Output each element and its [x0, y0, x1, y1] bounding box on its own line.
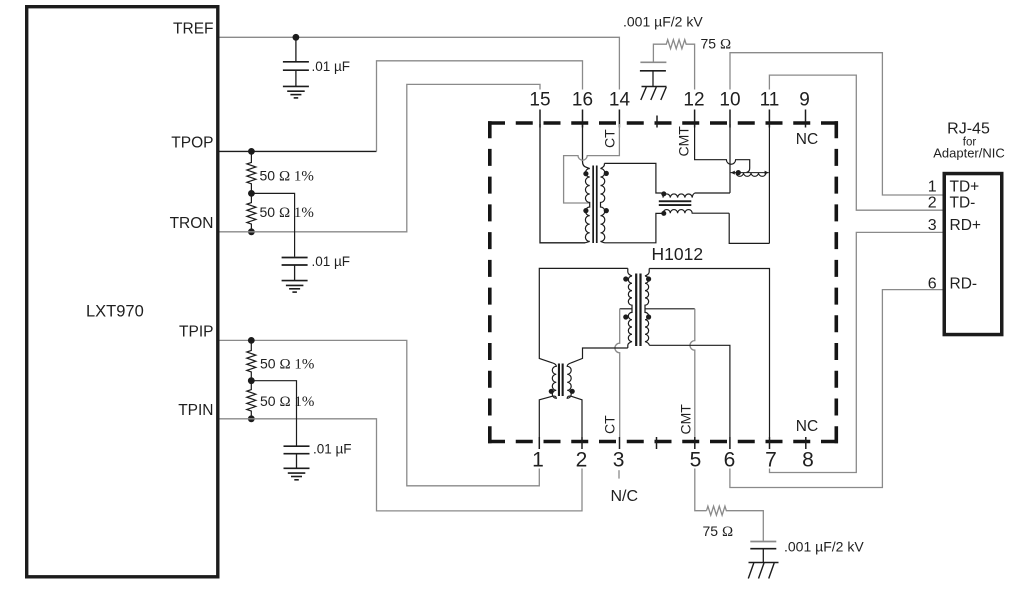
svg-text:75 Ω: 75 Ω: [701, 36, 732, 53]
svg-text:5: 5: [690, 449, 702, 472]
wire C3 branch: [251, 381, 296, 446]
wire CMT pin 5 riser with hop: [690, 309, 695, 437]
pin stems bottom row: [539, 437, 806, 449]
svg-text:75 Ω: 75 Ω: [703, 523, 734, 540]
choke L1 top winding: [662, 193, 731, 198]
wire pin 15 to T1 primary bottom: [540, 124, 585, 243]
L2 phase dot: [736, 170, 741, 175]
capacitor C2 .01uF: [282, 258, 308, 281]
wire T1 secondary top to choke L1: [604, 163, 661, 193]
svg-text:NC: NC: [796, 418, 818, 435]
resistor R6 75 Ohm with leads: [653, 40, 694, 90]
wire pin 10 to RJ45 TD+: [730, 53, 943, 195]
wire CMT pin 12 to L2 center tap with hop: [695, 124, 750, 172]
svg-text:50 Ω 1%: 50 Ω 1%: [260, 356, 314, 373]
choke L1 phase dots: [661, 191, 666, 216]
transformer T3 right winding: [567, 363, 571, 398]
T3 phase dots: [549, 389, 575, 394]
svg-text:11: 11: [760, 90, 780, 111]
svg-text:TD+: TD+: [950, 179, 980, 196]
svg-text:NC: NC: [796, 131, 818, 148]
T2 phase dots: [623, 276, 651, 319]
transformer T3 left winding: [552, 363, 556, 398]
wire pin 10 into module: [729, 124, 731, 193]
svg-text:H1012: H1012: [652, 244, 704, 264]
transformer T2 right winding: [645, 269, 649, 346]
transformer T1 right winding: [601, 163, 605, 242]
wire pin 16 to T1 primary top: [583, 124, 590, 169]
svg-text:TPIN: TPIN: [178, 402, 213, 419]
capacitor C4 .001uF: [640, 62, 667, 86]
wire T1 secondary bottom to choke L1: [605, 213, 662, 242]
wire TPOP to turn: [220, 150, 377, 152]
wire choke bottom right to pin 11: [729, 213, 769, 243]
wire TPOP riser to pin 16: [377, 61, 583, 152]
transformer T1 core: [592, 166, 597, 244]
svg-text:14: 14: [609, 90, 631, 111]
svg-text:RJ-45: RJ-45: [947, 121, 990, 138]
transformer T1 left winding: [585, 169, 590, 243]
svg-text:8: 8: [802, 449, 814, 472]
wire T3 left bottom to pin 1: [539, 396, 552, 437]
node TREF/C1 junction: [293, 34, 300, 41]
ground G1: [283, 86, 309, 98]
wire TRON to pin 15: [220, 84, 541, 231]
svg-text:9: 9: [799, 90, 810, 111]
svg-text:6: 6: [928, 275, 937, 292]
wire T2 left top to T3: [539, 268, 628, 363]
choke L1 bottom winding: [662, 210, 730, 214]
wire TREF to pin 14: [220, 37, 620, 89]
RJ-45 connector box: [944, 174, 1002, 335]
chassis ground G4: [641, 87, 667, 101]
svg-text:.001 µF/2 kV: .001 µF/2 kV: [623, 14, 703, 30]
svg-text:TPOP: TPOP: [171, 135, 213, 152]
wire pin 11 into module: [768, 124, 770, 243]
resistor R2 50 Ohm 1%: [247, 193, 256, 231]
wire TPIN to pin 2: [220, 419, 583, 511]
capacitor C1 .01uF: [283, 37, 309, 86]
wire pin 11 to RJ45 TD-: [769, 75, 942, 210]
svg-text:10: 10: [719, 90, 740, 111]
wire CT pin 3 riser with hop: [615, 309, 620, 437]
svg-text:16: 16: [572, 90, 593, 111]
svg-text:.01 µF: .01 µF: [313, 442, 352, 457]
svg-text:1: 1: [928, 179, 937, 196]
svg-text:.001 µF/2 kV: .001 µF/2 kV: [784, 539, 864, 555]
transformer T3 core: [558, 364, 564, 397]
resistor R4 50 Ohm 1%: [247, 381, 256, 419]
pin stems top row: [540, 110, 806, 128]
node TPIP junction: [248, 337, 255, 344]
svg-text:2: 2: [928, 195, 937, 212]
svg-text:1: 1: [532, 449, 544, 472]
wire TPIP to pin 1: [220, 340, 540, 485]
svg-text:CMT: CMT: [678, 404, 694, 435]
choke L1 core: [659, 200, 692, 206]
transformer T2 core: [635, 274, 642, 347]
svg-text:7: 7: [765, 449, 777, 472]
T1 phase dots: [583, 171, 609, 213]
ground G2: [282, 281, 308, 293]
wire T2 right middle tap: [645, 308, 695, 310]
autotransformer L2: [731, 171, 769, 177]
svg-text:6: 6: [724, 449, 736, 472]
svg-text:CT: CT: [602, 129, 618, 148]
svg-text:RD-: RD-: [950, 275, 978, 292]
svg-text:CT: CT: [602, 415, 618, 434]
wire T3 right bottom to pin 2: [571, 396, 582, 437]
node TPOP junction: [248, 148, 255, 155]
node TPIN junction: [248, 415, 255, 422]
svg-text:LXT970: LXT970: [86, 303, 144, 321]
capacitor C3 .01uF: [284, 446, 310, 468]
svg-text:50 Ω 1%: 50 Ω 1%: [260, 393, 314, 410]
svg-text:N/C: N/C: [611, 488, 639, 505]
wire T2 left bottom to T3: [571, 348, 628, 363]
wire pin 7 to RJ45 RD+: [770, 232, 943, 472]
resistor R3 50 Ohm 1%: [247, 340, 256, 380]
svg-text:3: 3: [613, 449, 625, 472]
wire C2 branch: [251, 193, 294, 256]
node TRON junction: [248, 228, 255, 235]
node R1/R2 midpoint: [248, 190, 255, 197]
transformer T2 left winding: [628, 268, 632, 348]
svg-text:.01 µF: .01 µF: [312, 59, 351, 74]
svg-text:.01 µF: .01 µF: [312, 254, 351, 269]
svg-text:12: 12: [683, 90, 704, 111]
wire T2 right top to pin 7: [649, 269, 769, 438]
svg-text:TRON: TRON: [170, 215, 214, 232]
chassis ground G5: [748, 563, 778, 579]
svg-text:15: 15: [529, 90, 550, 111]
ground G3: [284, 468, 310, 480]
wire pin 6 to RJ45 RD-: [730, 290, 943, 488]
resistor R1 50 Ohm 1%: [247, 151, 256, 193]
N/C stub below pin 3: [618, 470, 620, 478]
capacitor C5 .001uF: [750, 542, 776, 563]
svg-text:TD-: TD-: [950, 195, 976, 212]
svg-text:2: 2: [576, 449, 588, 472]
wire pin 5 to R5: [695, 469, 707, 511]
svg-text:CMT: CMT: [676, 126, 692, 157]
node R3/R4 midpoint: [248, 377, 255, 384]
svg-text:TREF: TREF: [173, 20, 213, 37]
wire T2 right bottom to pin 6: [649, 345, 730, 437]
resistor R5 75 Ohm: [707, 506, 764, 541]
IC U1 LXT970 box: [27, 7, 218, 577]
wire T2 left middle tap: [620, 308, 632, 310]
svg-text:RD+: RD+: [950, 217, 981, 234]
H1012 module dashed box: [488, 121, 838, 443]
svg-text:50 Ω 1%: 50 Ω 1%: [260, 204, 314, 221]
svg-text:3: 3: [928, 217, 937, 234]
svg-text:50 Ω 1%: 50 Ω 1%: [260, 168, 314, 185]
svg-text:TPIP: TPIP: [179, 324, 213, 341]
svg-text:Adapter/NIC: Adapter/NIC: [933, 146, 1005, 161]
wire CT pin 14 to T1 center tap with hop: [564, 124, 620, 203]
